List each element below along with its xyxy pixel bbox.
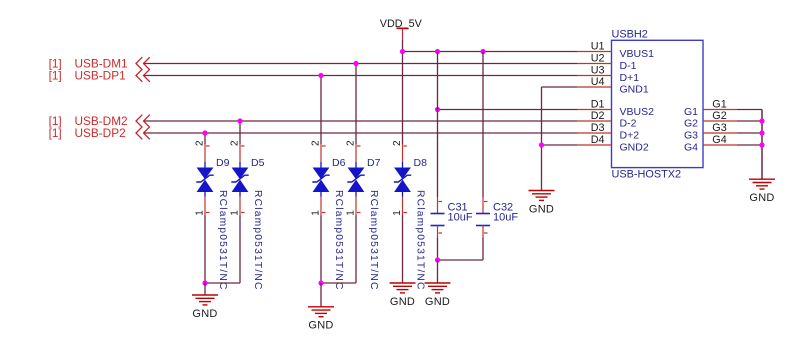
svg-text:VBUS1: VBUS1: [620, 48, 655, 60]
wire C32 top column: [482, 52, 484, 198]
pin 2 of D6: [311, 140, 322, 162]
wire to D6 top: [320, 76, 322, 145]
capacitor C31: [431, 214, 445, 226]
svg-text:GND: GND: [425, 296, 450, 308]
wire USB-DM1 (to U2): [145, 63, 578, 65]
svg-text:10uF: 10uF: [448, 212, 473, 224]
wire USB-DP1 (to U3): [145, 75, 578, 77]
svg-text:GND1: GND1: [620, 84, 649, 96]
svg-text:1: 1: [311, 210, 322, 216]
TVS diode D7: [347, 162, 364, 197]
svg-text:D2: D2: [591, 110, 605, 122]
junction G2: [759, 118, 764, 123]
pin 1 tick of D7: [357, 212, 361, 214]
ground: [529, 191, 555, 216]
svg-text:U1: U1: [591, 41, 605, 53]
svg-text:RClamp0531T/NC: RClamp0531T/NC: [415, 190, 426, 291]
pin 2 of D9: [195, 140, 206, 162]
junction VDD rail / stem: [400, 49, 405, 54]
svg-text:D-2: D-2: [620, 118, 637, 130]
svg-text:D-1: D-1: [620, 60, 637, 72]
wire gnd rail D9/D5: [205, 282, 240, 284]
pin G4: [684, 134, 737, 154]
wire to D7 top: [355, 64, 357, 145]
svg-text:RClamp0531T/NC: RClamp0531T/NC: [368, 190, 379, 291]
svg-text:D3: D3: [591, 122, 605, 134]
ground: [308, 307, 334, 332]
junction GND2 tie: [539, 142, 544, 147]
pin 1 of C31: [437, 197, 439, 214]
wire cap gnd rail: [438, 259, 484, 261]
ground: [749, 179, 775, 204]
TVS diode D8: [394, 162, 411, 197]
sheet-entry chevron USB-DM2: [136, 115, 150, 128]
wire VDD stem: [402, 40, 404, 52]
net label [1] USB-DP1: [49, 69, 126, 83]
wire G3 to gnd column: [737, 132, 762, 134]
pin 2 tick of D6: [322, 145, 326, 147]
pin D4 (GND2): [577, 134, 649, 154]
wire to D5 top: [239, 121, 241, 144]
wire gnd stem x=402.5: [402, 282, 404, 284]
svg-text:RClamp0531T/NC: RClamp0531T/NC: [333, 190, 344, 291]
pin 2 tick of D9: [206, 145, 210, 147]
svg-text:G4: G4: [684, 142, 698, 154]
pin 2 of D8: [392, 140, 403, 162]
pin 1 of C32: [482, 197, 484, 214]
junction DM1/D7: [353, 61, 358, 66]
wire gnd stem x=321: [320, 283, 322, 307]
pin 2 of C31: [437, 226, 439, 238]
pin 2 of C32: [482, 226, 484, 238]
svg-text:USBH2: USBH2: [612, 28, 648, 40]
pin 2 of D7: [346, 140, 357, 162]
pin 2 tick of D5: [241, 145, 245, 147]
svg-text:U3: U3: [591, 65, 605, 77]
svg-text:2: 2: [311, 140, 322, 146]
wire GND2 (to D4): [542, 144, 578, 146]
junction cap gnd: [435, 257, 440, 262]
pin 2 tick of D8: [404, 145, 408, 147]
wire gnd rail D6/D7: [321, 282, 356, 284]
net label [1] USB-DM2: [49, 114, 128, 128]
svg-text:GND: GND: [749, 192, 774, 204]
svg-text:D+2: D+2: [620, 130, 640, 142]
svg-text:G1: G1: [684, 106, 698, 118]
wire C31 bottom: [437, 238, 439, 261]
svg-text:2: 2: [230, 140, 241, 146]
wire G4 to gnd column: [737, 144, 762, 146]
junction DP2/D9: [202, 130, 207, 135]
wire C31 top column: [437, 52, 439, 198]
ground: [425, 283, 451, 308]
pin G3: [684, 122, 737, 142]
svg-text:2: 2: [346, 140, 357, 146]
svg-text:D7: D7: [367, 157, 381, 169]
net label [1] USB-DP2: [49, 126, 126, 140]
pin G1: [684, 99, 737, 119]
pin 1 tick of D9: [206, 212, 210, 214]
junction D6 gnd: [318, 280, 323, 285]
svg-text:10uF: 10uF: [493, 212, 518, 224]
wire D5 bottom: [239, 216, 241, 284]
junction DP1/D6: [318, 73, 323, 78]
wire VBUS2 (to D1): [438, 109, 578, 111]
wire GND1/GND2 tie: [541, 87, 543, 145]
capacitor C32: [476, 214, 490, 226]
junction G3: [759, 130, 764, 135]
junction VDD rail / C32: [480, 49, 485, 54]
pin D2 (D-2): [577, 110, 637, 130]
svg-text:G2: G2: [712, 110, 726, 122]
svg-text:U2: U2: [591, 53, 605, 65]
pin U1 (VBUS1): [577, 41, 654, 61]
svg-text:D6: D6: [332, 157, 346, 169]
TVS diode D9: [196, 162, 213, 197]
TVS diode D5: [231, 162, 248, 197]
ground: [390, 283, 416, 308]
junction DM2/D5: [237, 118, 242, 123]
svg-text:GND: GND: [529, 203, 554, 215]
pin U3 (D+1): [577, 65, 639, 85]
power symbol VDD_5V: [380, 18, 423, 40]
svg-text:G2: G2: [684, 118, 698, 130]
TVS diode D6: [312, 162, 329, 197]
svg-text:G3: G3: [712, 122, 726, 134]
sheet-entry chevron USB-DP1: [136, 69, 150, 82]
pin D3 (D+2): [577, 122, 639, 142]
svg-text:G3: G3: [684, 130, 698, 142]
svg-text:D5: D5: [251, 157, 265, 169]
svg-text:G4: G4: [712, 134, 726, 146]
svg-text:2: 2: [195, 140, 206, 146]
svg-text:RClamp0531T/NC: RClamp0531T/NC: [217, 190, 228, 291]
svg-text:1: 1: [195, 210, 206, 216]
pin D1 (VBUS2): [577, 99, 654, 119]
pin 1 of D9: [195, 197, 206, 216]
pin 2 tick of D7: [357, 145, 361, 147]
svg-text:U4: U4: [591, 76, 605, 88]
svg-text:[1]: [1]: [49, 69, 62, 83]
net label [1] USB-DM1: [49, 57, 128, 71]
wire D6 bottom: [320, 216, 322, 284]
sheet-entry chevron USB-DM1: [136, 57, 150, 70]
svg-text:D8: D8: [414, 157, 428, 169]
svg-text:[1]: [1]: [49, 126, 62, 140]
svg-text:D4: D4: [591, 134, 605, 146]
svg-text:RClamp0531T/NC: RClamp0531T/NC: [252, 190, 263, 291]
ground: [192, 295, 218, 320]
svg-text:2: 2: [392, 140, 403, 146]
pin 1 tick of D8: [404, 212, 408, 214]
pin G2: [684, 110, 737, 130]
svg-text:1: 1: [230, 210, 241, 216]
connector U? USBH2 body: [612, 40, 704, 167]
svg-text:GND: GND: [308, 320, 333, 332]
svg-text:GND2: GND2: [620, 142, 649, 154]
wire gnd stem x=762: [761, 110, 763, 180]
wire right gnd column: [761, 110, 763, 180]
svg-text:VBUS2: VBUS2: [620, 106, 655, 118]
pin 1 tick of D5: [241, 212, 245, 214]
pin 1 of D8: [392, 197, 403, 216]
wire D9 bottom: [204, 216, 206, 284]
wire C32 bottom: [482, 238, 484, 261]
junction VDD rail / C31: [435, 49, 440, 54]
svg-text:GND: GND: [390, 296, 415, 308]
junction VBUS2 / C31 column: [435, 107, 440, 112]
svg-text:1: 1: [392, 210, 403, 216]
svg-text:1: 1: [346, 210, 357, 216]
pin U4 (GND1): [577, 76, 649, 96]
wire to D9 top: [204, 133, 206, 144]
svg-text:USB-DP2: USB-DP2: [75, 126, 126, 140]
wire G2 to gnd column: [737, 120, 762, 122]
junction G4: [759, 142, 764, 147]
svg-text:GND: GND: [192, 308, 217, 320]
wire VDD_5V rail (to U1): [403, 51, 578, 53]
junction D9 gnd: [202, 280, 207, 285]
svg-text:G1: G1: [712, 99, 726, 111]
wire gnd stem x=205: [204, 283, 206, 295]
pin 1 of D5: [230, 197, 241, 216]
svg-text:USB-DP1: USB-DP1: [75, 69, 126, 83]
wire to D8 top: [402, 52, 404, 145]
svg-text:D9: D9: [216, 157, 230, 169]
wire G1 to gnd column: [737, 109, 762, 111]
wire D8 bottom: [402, 216, 404, 284]
wire USB-DM2 (to D2): [145, 120, 578, 122]
svg-text:D1: D1: [591, 99, 605, 111]
wire GND1 (to U4): [542, 86, 578, 88]
svg-text:USB-HOSTX2: USB-HOSTX2: [612, 168, 682, 180]
sheet-entry chevron USB-DP2: [136, 127, 150, 140]
wire D7 bottom: [355, 216, 357, 284]
pin U2 (D-1): [577, 53, 637, 73]
wire USB-DP2 (to D3): [145, 132, 578, 134]
pin 1 tick of D6: [322, 212, 326, 214]
svg-text:D+1: D+1: [620, 72, 640, 84]
pin 2 of D5: [230, 140, 241, 162]
pin 1 of D7: [346, 197, 357, 216]
wire gnd stem x=437.5: [437, 260, 439, 283]
pin 1 of D6: [311, 197, 322, 216]
wire gnd stem x=541.5: [541, 145, 543, 191]
